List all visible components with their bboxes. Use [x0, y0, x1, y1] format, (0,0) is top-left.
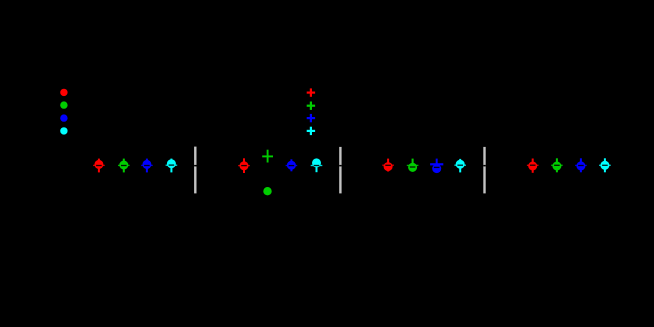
legend plus cyan [307, 127, 315, 135]
group 1 point green [118, 159, 130, 173]
legend plus red [307, 88, 315, 96]
legend circle cyan [60, 127, 67, 134]
gray separator bar 2 [339, 147, 341, 194]
group 1 point cyan [166, 159, 178, 173]
group 2 point cyan [311, 158, 323, 172]
group 4 point red [527, 159, 539, 173]
group 4 point green [551, 158, 563, 172]
group 3 point green [407, 159, 419, 172]
legend circle blue [60, 114, 67, 121]
group 1 point red [93, 159, 105, 173]
group 4 point blue [575, 158, 587, 172]
gray separator bar 3 [483, 147, 485, 194]
group 2 circle green (outlier low) [263, 187, 271, 195]
group 3 point blue [430, 159, 443, 174]
group 2 point blue [286, 159, 298, 171]
group 3 point cyan [454, 159, 466, 173]
group 2 plus green (outlier high) [262, 150, 273, 163]
legend circle green [60, 101, 67, 108]
group 2 point red [238, 158, 250, 173]
group 4 point cyan [599, 158, 611, 172]
legend plus blue [307, 114, 315, 122]
gray separator bar 1 [194, 147, 196, 194]
group 1 point blue [141, 159, 153, 173]
legend circle red [60, 89, 67, 96]
group 3 point red [382, 159, 394, 172]
legend plus green [307, 102, 315, 110]
